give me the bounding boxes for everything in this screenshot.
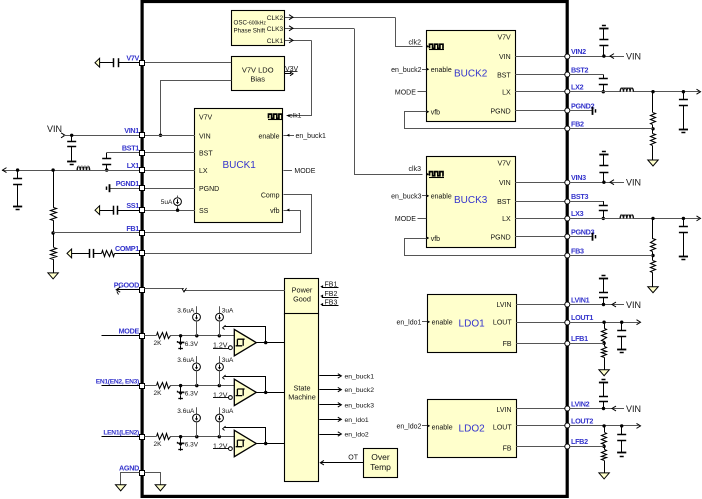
junction LX3 divider: [651, 217, 654, 220]
ground below VOUT3 cap: [679, 257, 688, 260]
VIN input to LVIN2: [570, 404, 641, 414]
ground above VIN3 cap: [599, 152, 608, 155]
input FB1 to Power Good: [320, 282, 338, 289]
svg-text:vfb: vfb: [431, 236, 440, 243]
pin VIN3: [565, 173, 586, 185]
wire VIN2: [515, 56, 565, 58]
resistor 2K MODE: [154, 332, 171, 347]
svg-text:2K: 2K: [154, 441, 163, 448]
svg-text:en_ldo2: en_ldo2: [396, 424, 421, 431]
svg-text:clk3: clk3: [409, 166, 422, 173]
wire BST2 ext: [570, 74, 604, 76]
resistor divider R1 top: [51, 170, 57, 233]
svg-text:LX: LX: [502, 90, 511, 97]
junction VIN3 cap: [602, 181, 605, 184]
low dropout regulator LDO2: [428, 400, 517, 458]
low dropout regulator LDO1: [428, 295, 517, 353]
junction zener MODE: [179, 334, 182, 337]
svg-text:BUCK3: BUCK3: [454, 195, 488, 206]
capacitor LVIN1: [599, 279, 608, 305]
wire V7V pin to bias: [144, 62, 231, 64]
wire EN1 comparator output: [256, 392, 285, 394]
wire vfb2 loop: [405, 110, 565, 128]
junction LX2 outcap: [682, 90, 685, 93]
resistor divider R1 bottom: [51, 233, 57, 273]
VIN input to VIN1: [47, 124, 140, 138]
ground below LOUT1 cap: [617, 350, 626, 353]
svg-text:VIN: VIN: [499, 54, 511, 61]
svg-text:enable: enable: [432, 424, 453, 431]
wire OT: [320, 455, 363, 465]
resistor divider R2 top: [651, 92, 656, 129]
svg-text:en_buck2: en_buck2: [345, 387, 375, 394]
wire LFB1: [516, 343, 565, 345]
wire MODE external: [102, 335, 145, 337]
resistor divider R3 top: [651, 218, 656, 255]
svg-text:1.2V: 1.2V: [213, 443, 228, 450]
analog ground FB2 divider: [648, 160, 658, 166]
junction MODE feedback: [264, 341, 267, 344]
junction BST2 on LX: [602, 90, 605, 93]
wire LOUT2: [516, 425, 565, 427]
clock glyph clk3: [409, 166, 444, 178]
resistor divider R3 bottom: [651, 256, 656, 287]
svg-text:VIN: VIN: [626, 404, 641, 414]
svg-text:MODE: MODE: [395, 90, 416, 97]
wire EN1 external: [102, 385, 145, 387]
oscillator block OSC 600kHz Phase Shift: [232, 11, 285, 46]
svg-text:VIN2: VIN2: [571, 47, 586, 56]
junction LX2 divider: [651, 90, 654, 93]
svg-text:BUCK2: BUCK2: [454, 69, 488, 80]
wire LEN1 comparator output: [256, 443, 285, 445]
buck converter BUCK3: [427, 157, 516, 248]
input FB2 to Power Good: [320, 291, 338, 298]
svg-text:VIN: VIN: [47, 124, 62, 134]
pin FB1: [126, 224, 144, 236]
wire EN1 signal: [144, 385, 234, 387]
svg-text:PGND: PGND: [490, 235, 510, 242]
svg-text:vfb: vfb: [270, 208, 279, 215]
current source 5uA: [161, 196, 182, 211]
svg-text:Phase Shift: Phase Shift: [234, 27, 266, 34]
comparator EN1: [234, 379, 256, 405]
junction 3.6uA MODE: [195, 334, 198, 337]
svg-text:Temp: Temp: [370, 462, 391, 472]
pin PGND3: [565, 228, 595, 240]
current source 3.6uA LEN1: [177, 407, 200, 437]
IC boundary: [142, 2, 567, 497]
wire PGND2: [515, 110, 565, 112]
wire LX1 to LX pin: [144, 170, 195, 172]
output arrow VOUT3: [697, 216, 701, 221]
wire LFB2 line: [570, 446, 604, 448]
power ground PGND1: [107, 184, 110, 192]
svg-text:FB3: FB3: [571, 246, 584, 255]
junction 5uA on SS wire: [176, 209, 179, 212]
reference 1.2V EN1: [213, 392, 232, 399]
svg-text:SS: SS: [199, 208, 209, 215]
resistor 2K LEN1: [154, 433, 171, 448]
svg-text:EN1(EN2, EN3): EN1(EN2, EN3): [96, 378, 139, 385]
pin PGOOD: [114, 281, 145, 293]
svg-text:en_buck2: en_buck2: [391, 67, 421, 74]
ground below VOUT2 cap: [679, 130, 688, 133]
pin COMP1: [115, 244, 145, 255]
svg-text:MODE: MODE: [395, 216, 416, 223]
svg-text:enable: enable: [432, 320, 453, 327]
junction BST cap on LX1: [105, 168, 108, 171]
pin SS1: [126, 201, 144, 213]
capacitor VIN3: [599, 155, 608, 183]
inductor L2: [620, 87, 634, 92]
svg-text:MODE: MODE: [119, 327, 140, 336]
resistor divider R2 bottom: [651, 129, 656, 160]
resistor 2K EN1: [154, 382, 171, 397]
svg-text:VIN: VIN: [199, 133, 211, 140]
wire LVIN2: [516, 408, 565, 410]
buck converter BUCK1: [195, 109, 283, 223]
svg-text:BST: BST: [497, 199, 511, 206]
comparator MODE: [234, 329, 256, 355]
wire Comp to COMP1 loop: [145, 195, 312, 254]
svg-text:OSC-600kHz: OSC-600kHz: [234, 19, 267, 26]
svg-text:PGND: PGND: [490, 109, 510, 116]
junction LX1 out cap: [16, 168, 19, 171]
clock glyph clk1: [268, 113, 302, 120]
svg-text:LFB1: LFB1: [571, 334, 588, 343]
resistor divider RL2 top: [602, 426, 607, 447]
svg-text:MODE: MODE: [294, 168, 315, 175]
svg-text:VIN: VIN: [499, 180, 511, 187]
svg-text:State: State: [293, 384, 310, 393]
ground below VOUT1 cap: [13, 207, 22, 210]
junction LOUT1 cap: [620, 321, 623, 324]
svg-text:3uA: 3uA: [222, 357, 234, 364]
svg-text:Bias: Bias: [250, 75, 265, 84]
analog ground LDO1 divider: [599, 370, 609, 376]
pin MODE: [119, 327, 145, 339]
junction LOUT1 divider: [602, 321, 605, 324]
label en_ldo2: [396, 424, 430, 431]
junction FB3 tap: [651, 254, 654, 257]
svg-text:PGND: PGND: [199, 186, 219, 193]
wire SS1 to SS pin: [144, 210, 195, 212]
wire LEN1 signal: [144, 436, 234, 438]
wire LX2 output: [570, 91, 699, 93]
svg-text:3.6uA: 3.6uA: [177, 408, 195, 415]
analog ground below divider: [48, 273, 58, 279]
wire LEN1 hysteresis feedback: [223, 426, 266, 443]
wire LOUT1: [516, 322, 565, 324]
VIN input to VIN2: [570, 51, 641, 61]
output en_ldo1 from State Machine: [319, 417, 369, 424]
clock glyph clk2: [409, 40, 444, 50]
power ground PGND2: [593, 107, 596, 115]
pin LX2: [565, 83, 584, 95]
junction VIN2 cap: [602, 54, 605, 57]
capacitor BST1 to LX1: [102, 153, 111, 171]
ground below LOUT2 cap: [617, 453, 626, 457]
wire VIN3: [515, 182, 565, 184]
wire LEN1 external: [102, 436, 145, 438]
svg-text:6.3V: 6.3V: [185, 442, 199, 449]
VIN input to LVIN1: [570, 300, 641, 310]
capacitor LVIN2: [599, 383, 608, 409]
pin FB2: [565, 120, 584, 131]
wire PGOOD: [144, 288, 284, 292]
junction LFB2 tap: [602, 445, 605, 448]
resistor divider RL2 bottom: [602, 446, 607, 472]
svg-text:PGND3: PGND3: [571, 228, 595, 237]
pin VIN1: [124, 126, 144, 137]
capacitor VOUT3: [679, 218, 688, 256]
junction VIN1 cap tap: [70, 134, 73, 137]
junction LX3 outcap: [682, 217, 685, 220]
V7V LDO Bias block: [232, 57, 285, 91]
wire FB1 line: [53, 232, 140, 234]
output arrow VOUT1: [3, 168, 7, 173]
svg-text:en_buck3: en_buck3: [391, 194, 421, 201]
VIN input to VIN3: [570, 178, 641, 188]
wire AGND left: [121, 473, 140, 485]
svg-text:LX: LX: [199, 168, 208, 175]
wire bias to VIN1 node: [161, 81, 232, 136]
wire EN1 hysteresis feedback: [223, 375, 266, 393]
svg-text:LVIN: LVIN: [497, 302, 512, 309]
junction zener LEN1: [179, 435, 182, 438]
svg-text:LDO2: LDO2: [459, 423, 486, 434]
junction LVIN2 cap: [602, 407, 605, 410]
svg-text:PGND2: PGND2: [571, 102, 595, 111]
output arrow LOUT2: [637, 423, 641, 428]
svg-text:BST: BST: [497, 72, 511, 79]
svg-text:VIN: VIN: [626, 178, 641, 188]
junction LVIN1 cap: [602, 303, 605, 306]
capacitor LOUT2: [617, 426, 626, 453]
svg-text:Machine: Machine: [288, 393, 316, 402]
wire MODE hysteresis feedback: [223, 325, 266, 342]
junction 3.6uA LEN1: [195, 435, 198, 438]
output en_buck1 from State Machine: [319, 373, 374, 380]
svg-text:Comp: Comp: [261, 192, 280, 199]
svg-text:BUCK1: BUCK1: [223, 160, 257, 171]
label en_buck3: [391, 194, 429, 201]
node V3V output: [285, 66, 299, 76]
wire AGND right: [145, 473, 161, 485]
wire LFB1 line: [570, 343, 604, 345]
wire LX2: [515, 91, 565, 93]
pin LVIN2: [565, 399, 590, 411]
label MODE of BUCK3: [395, 216, 426, 223]
svg-text:LVIN2: LVIN2: [571, 399, 590, 408]
svg-text:FB2: FB2: [325, 291, 338, 298]
ground above LVIN2 cap: [599, 380, 608, 383]
pin LX3: [565, 209, 584, 221]
svg-text:V7V LDO: V7V LDO: [242, 66, 274, 75]
svg-text:LVIN1: LVIN1: [571, 295, 590, 304]
wire PGND3 ext: [570, 236, 593, 238]
junction 3uA EN1: [218, 384, 221, 387]
resistor divider RL1 top: [602, 322, 607, 343]
junction LOUT2 divider: [602, 424, 605, 427]
svg-text:clk2: clk2: [409, 40, 422, 47]
wire LVIN1: [516, 304, 565, 306]
svg-text:en_buck1: en_buck1: [345, 373, 375, 380]
junction LOUT2 cap: [620, 424, 623, 427]
pin VIN2: [565, 47, 586, 59]
junction bias tap on VIN1: [159, 134, 162, 137]
svg-text:AGND: AGND: [119, 463, 139, 472]
junction 3.6uA EN1: [195, 384, 198, 387]
zener 6.3V LEN1: [177, 437, 198, 451]
reference 1.2V LEN1: [213, 443, 232, 450]
Over Temp block: [364, 449, 398, 478]
output arrow LOUT1: [637, 320, 641, 325]
pin PGND1: [116, 179, 145, 191]
wire vfb to FB1 loop: [145, 209, 301, 233]
capacitor on V7V pin: [95, 58, 140, 67]
pin BST2: [565, 65, 589, 77]
pin PGND2: [565, 102, 595, 113]
label MODE of BUCK2: [395, 90, 426, 97]
label en_ldo1: [396, 320, 430, 327]
pin BST1: [122, 143, 145, 155]
wire CLK2: [285, 15, 423, 47]
analog ground left: [116, 485, 126, 491]
current source 3uA LEN1: [216, 407, 234, 437]
pin AGND: [119, 463, 144, 475]
inductor L3: [620, 214, 634, 219]
svg-text:PGND1: PGND1: [116, 179, 140, 188]
current source 3.6uA EN1: [177, 356, 200, 386]
wire CLK3: [285, 26, 423, 175]
ground above LVIN1 cap: [599, 276, 608, 279]
wire PGND1: [109, 188, 139, 190]
output en_buck2 from State Machine: [319, 387, 374, 394]
svg-text:LOUT2: LOUT2: [571, 417, 593, 426]
capacitor VIN2: [599, 29, 608, 56]
svg-text:BST3: BST3: [571, 192, 588, 201]
svg-text:en_buck1: en_buck1: [296, 133, 326, 140]
svg-text:CLK3: CLK3: [267, 26, 284, 33]
label en_buck2: [391, 67, 429, 74]
capacitor SS1: [95, 206, 140, 215]
capacitor VOUT1 to ground: [13, 170, 22, 206]
wire PGND2 ext: [570, 110, 593, 112]
wire vfb3 loop: [405, 237, 565, 256]
svg-text:CLK2: CLK2: [267, 15, 284, 22]
svg-text:LX1: LX1: [127, 161, 140, 170]
svg-text:FB: FB: [503, 341, 512, 348]
pin LFB1: [565, 334, 588, 346]
junction BST3 on LX: [602, 217, 605, 220]
wire LOUT1 output: [570, 322, 639, 324]
wire MODE comparator output: [256, 342, 285, 344]
svg-text:LVIN: LVIN: [497, 407, 512, 414]
svg-text:OT: OT: [348, 455, 358, 462]
pin EN1: [96, 378, 145, 388]
analog ground right: [155, 485, 165, 491]
pin LX1: [127, 161, 145, 173]
pin FB3: [565, 246, 584, 258]
svg-text:2K: 2K: [154, 390, 163, 397]
input FB3 to Power Good: [320, 299, 338, 306]
svg-text:en_ldo1: en_ldo1: [345, 417, 369, 424]
svg-text:V7V: V7V: [199, 115, 213, 122]
capacitor LOUT1: [617, 322, 626, 349]
reference 1.2V MODE: [213, 343, 232, 350]
svg-text:2K: 2K: [154, 340, 163, 347]
wire LX1 output line: [2, 170, 140, 172]
svg-text:3.6uA: 3.6uA: [177, 307, 195, 314]
svg-text:en_buck3: en_buck3: [345, 402, 375, 409]
svg-text:BST1: BST1: [122, 143, 139, 152]
svg-text:VIN3: VIN3: [571, 173, 586, 182]
wire LOUT2 output: [570, 425, 639, 427]
wire FB2 line: [570, 128, 653, 130]
pin LFB2: [565, 437, 588, 449]
capacitor BST2: [599, 75, 608, 92]
pin BST3: [565, 192, 589, 204]
label en_buck1: [283, 133, 326, 140]
svg-text:Good: Good: [293, 294, 311, 303]
svg-text:Over: Over: [371, 452, 390, 462]
pin LOUT1: [565, 313, 594, 325]
State Machine block: [285, 314, 319, 482]
compensation network COMP1: [67, 249, 140, 258]
svg-text:clk1: clk1: [289, 113, 301, 120]
zener 6.3V EN1: [177, 386, 198, 400]
output en_ldo2 from State Machine: [319, 432, 369, 439]
svg-text:LFB2: LFB2: [571, 437, 588, 446]
wire LX3: [515, 218, 565, 220]
junction FB1 tap: [51, 231, 54, 234]
output arrow VOUT2: [697, 89, 701, 94]
svg-text:VIN: VIN: [626, 300, 641, 310]
zener 6.3V MODE: [177, 336, 198, 350]
svg-text:FB2: FB2: [571, 120, 584, 129]
svg-text:enable: enable: [431, 194, 452, 201]
junction LEN1 feedback: [264, 442, 267, 445]
wire PGND3: [515, 236, 565, 238]
analog ground LDO2 divider: [599, 473, 609, 479]
svg-text:enable: enable: [431, 67, 452, 74]
svg-text:LEN1(LEN2): LEN1(LEN2): [103, 430, 139, 437]
svg-text:6.3V: 6.3V: [185, 391, 199, 398]
svg-text:1.2V: 1.2V: [213, 392, 228, 399]
analog ground FB3 divider: [648, 287, 658, 293]
svg-text:BST: BST: [199, 151, 213, 158]
junction EN1 feedback: [264, 391, 267, 394]
wire BST1 left: [107, 152, 140, 154]
svg-text:en_ldo1: en_ldo1: [396, 320, 421, 327]
Power Good block: [285, 279, 319, 315]
pin V7V: [126, 54, 144, 66]
svg-text:VIN: VIN: [626, 51, 641, 61]
svg-text:enable: enable: [258, 133, 279, 140]
capacitor VIN1 to ground: [67, 135, 76, 161]
svg-text:LDO1: LDO1: [459, 318, 486, 329]
power ground PGND3: [593, 233, 596, 241]
inductor L1: [77, 166, 90, 171]
svg-text:en_ldo2: en_ldo2: [345, 432, 369, 439]
wire FB3 line: [570, 255, 653, 257]
wire PGOOD external output: [116, 287, 139, 294]
junction LX1 divider: [51, 168, 54, 171]
wire BST3 ext: [570, 201, 604, 203]
svg-text:3uA: 3uA: [222, 307, 234, 314]
